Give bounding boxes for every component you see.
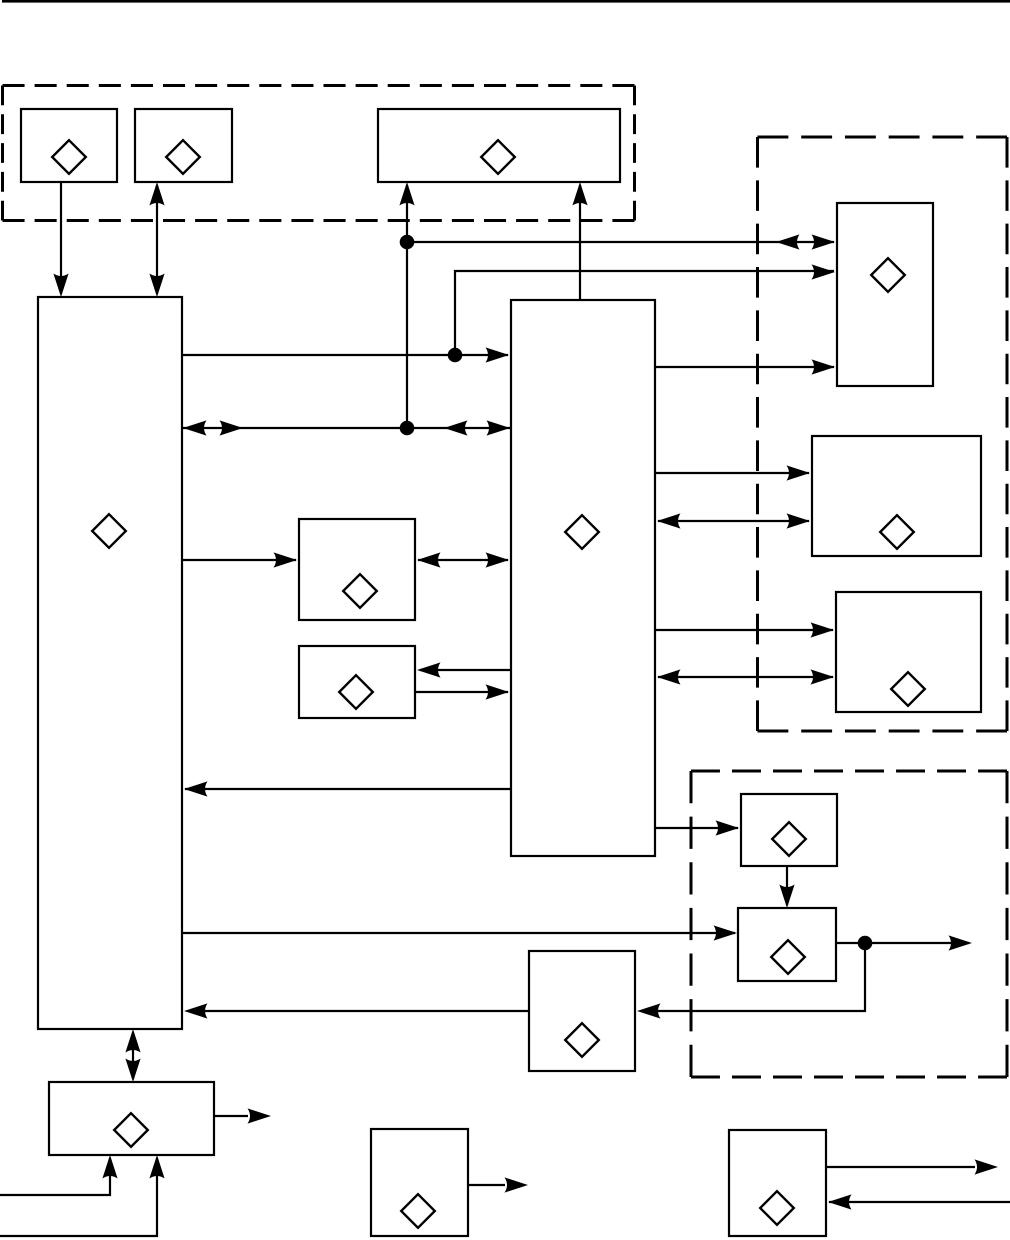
wire F2 output xyxy=(836,942,969,944)
arrowhead B to F2 xyxy=(714,925,738,940)
wire B to D1 xyxy=(182,559,296,561)
wire D1-C bidirectional xyxy=(418,559,508,561)
arrowhead B to D1 xyxy=(274,552,298,567)
wire C-E3 bidirectional xyxy=(658,676,833,678)
dashed container (top-left group) xyxy=(3,86,635,221)
arrowhead G to B xyxy=(184,1003,208,1018)
diamond label in F1 xyxy=(772,822,806,856)
diamond label in B xyxy=(92,514,126,548)
arrowhead C to D2 xyxy=(417,662,441,677)
arrowhead C to E2 xyxy=(787,465,811,480)
block E2 (right column middle box) xyxy=(812,436,981,556)
top rule xyxy=(2,0,1010,3)
wire C to D2 xyxy=(420,669,511,671)
wire branch up to E1 xyxy=(455,271,834,355)
wire A1 to B xyxy=(60,182,62,294)
diamond label in G xyxy=(565,1023,599,1057)
block C (center tall box) xyxy=(511,300,655,856)
wire C to B return xyxy=(185,788,511,790)
arrowhead into B top from A1 xyxy=(53,274,68,298)
block F1 (bottom-right group upper box) xyxy=(741,794,837,866)
arrowhead C to E3 xyxy=(811,622,835,637)
arrowhead into J xyxy=(828,1194,852,1209)
wire I output xyxy=(468,1184,505,1186)
junction dot on A3 drop line xyxy=(400,235,415,250)
diamond label in F2 xyxy=(771,940,805,974)
wire B to F2 xyxy=(182,932,735,934)
block E3 (right column bottom box) xyxy=(836,592,981,712)
junction dot on B-C upper line xyxy=(448,348,463,363)
arrowhead bus pair left at B xyxy=(183,420,207,435)
diamond label in H xyxy=(114,1113,148,1147)
diamond label in D2 xyxy=(339,675,373,709)
wire C to E1 xyxy=(655,366,834,368)
block H (bottom-left box) xyxy=(49,1082,214,1155)
dashed container (right group) xyxy=(758,137,1008,731)
wire input 2 to H xyxy=(0,1158,157,1236)
dashed container (bottom-right group) xyxy=(691,771,1007,1077)
arrowhead down into B top (A2 link) xyxy=(149,274,164,298)
arrowhead input1 into H xyxy=(102,1155,117,1179)
block A2 (top-left second box) xyxy=(135,109,232,182)
wire D2 to C xyxy=(415,691,508,693)
wire A3 left drop to bus xyxy=(406,185,408,428)
arrowhead I output xyxy=(505,1177,529,1192)
wire F1 to F2 xyxy=(786,866,788,905)
wire C to E3 (upper) xyxy=(655,629,833,631)
arrowhead bus pair right near B xyxy=(220,420,244,435)
arrowhead into E1 (branch line) xyxy=(812,264,836,279)
arrowhead bus pair left near C xyxy=(444,420,468,435)
wire C to F1 xyxy=(655,827,738,829)
block A3 (top wide box) xyxy=(378,109,620,182)
wire B to C (upper) xyxy=(182,354,508,356)
arrowhead bidir at E3 xyxy=(811,669,835,684)
diamond label in A3 xyxy=(481,140,515,174)
block G (lower center box) xyxy=(529,951,635,1071)
arrowhead bidir at C (E2 line) xyxy=(657,513,681,528)
wire C to E2 (upper) xyxy=(655,472,809,474)
wire node down to G xyxy=(641,943,865,1011)
diamond label in C xyxy=(565,515,599,549)
arrowhead H output xyxy=(248,1108,272,1123)
junction dot on bus xyxy=(400,421,415,436)
junction dot on F2 output xyxy=(858,936,873,951)
arrowhead B-H lower xyxy=(125,1059,140,1083)
arrowhead F1 to F2 xyxy=(779,885,794,909)
arrowhead D2 to C xyxy=(486,684,510,699)
diamond label in I xyxy=(401,1194,435,1228)
wire C-E2 bidirectional xyxy=(658,520,809,522)
arrowhead input2 into H xyxy=(149,1155,164,1179)
arrowhead pair left on E1 line xyxy=(776,234,800,249)
arrowhead bus pair right at C xyxy=(487,420,511,435)
diamond label in J xyxy=(760,1191,794,1225)
wire B-H bidirectional xyxy=(132,1032,134,1079)
arrowhead up into A2 xyxy=(149,182,164,206)
arrowhead bidir at C (E3 line) xyxy=(657,669,681,684)
wire A2-B bidirectional xyxy=(156,185,158,294)
arrowhead pair right into E1 xyxy=(812,234,836,249)
diamond label in D1 xyxy=(343,574,377,608)
arrowhead into G xyxy=(637,1003,661,1018)
wire H output xyxy=(214,1115,248,1117)
diamond label in A2 xyxy=(166,140,200,174)
diamond label in E3 xyxy=(891,672,925,706)
arrowhead bidir at D1 xyxy=(417,552,441,567)
arrowhead up into A3 left xyxy=(399,182,414,206)
arrowhead C to E1 xyxy=(812,359,836,374)
block E1 (right column top box) xyxy=(837,203,933,386)
block D2 (center small box lower) xyxy=(299,646,415,718)
arrowhead bidir at C (D1 line) xyxy=(486,552,510,567)
arrowhead B-H upper xyxy=(125,1029,140,1053)
arrowhead C to B return xyxy=(184,781,208,796)
wire input 1 to H xyxy=(0,1158,110,1195)
diamond label in E1 xyxy=(871,258,905,292)
arrowhead F2 output xyxy=(949,935,973,950)
wire C to A3 vertical xyxy=(579,185,581,300)
arrowhead C to F1 xyxy=(716,820,740,835)
wire B-C bus bidirectional xyxy=(182,427,511,429)
wire node to E1 horizontal xyxy=(407,241,834,243)
arrowhead bidir at E2 xyxy=(787,513,811,528)
wire G to B xyxy=(188,1010,529,1012)
arrowhead J output xyxy=(975,1159,999,1174)
block I (bottom-middle box) xyxy=(371,1129,468,1236)
block A1 (top-left small box) xyxy=(21,109,117,182)
block F2 (bottom-right group lower box) xyxy=(738,908,836,981)
wire J output xyxy=(826,1166,975,1168)
diamond label in E2 xyxy=(880,515,914,549)
wire input to J xyxy=(829,1201,1010,1203)
diamond label in A1 xyxy=(52,140,86,174)
arrowhead up into A3 right xyxy=(572,182,587,206)
block J (bottom-right box) xyxy=(729,1130,826,1236)
block B (left tall box) xyxy=(38,297,182,1029)
arrowhead into C (upper B line) xyxy=(486,347,510,362)
block D1 (center small box upper) xyxy=(299,519,415,620)
